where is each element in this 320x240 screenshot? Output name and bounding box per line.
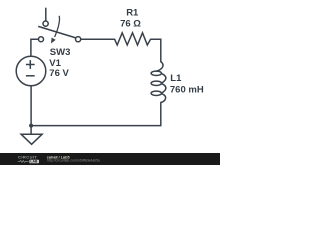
wire: junction to ground stub [30,126,32,135]
svg-text:76 V: 76 V [49,68,69,79]
svg-text:http://circuitlab.com/c69f8da4: http://circuitlab.com/c69f8da4ab5u [47,159,100,163]
wire: source top pin up and right to switch left throw [31,39,38,56]
resistor R1 zigzag [115,33,151,45]
ground [21,134,42,144]
node junction dot [29,124,33,128]
SW3 left throw terminal [39,37,44,42]
svg-text:R1: R1 [126,7,139,18]
svg-text:LAB: LAB [30,160,38,164]
watermark logo resistor squiggle [18,160,29,162]
wire: source bottom pin down to junction [30,86,32,126]
svg-text:L1: L1 [170,73,182,84]
SW3 top throw terminal [43,21,48,26]
SW3 action arrow [51,16,60,44]
wire: inductor bottom pin down, bottom wire left to junction [31,102,161,125]
svg-text:760 mH: 760 mH [170,85,204,96]
svg-text:SW3: SW3 [50,47,71,58]
V1 plus sign [26,60,35,69]
wire: resistor right to top-right corner, down to inductor top [151,39,161,62]
svg-text:76 Ω: 76 Ω [120,18,141,29]
wire: stub above switch top throw [45,8,47,21]
voltage source V1 [16,56,46,86]
watermark bar [0,153,220,165]
inductor L1 coil [151,62,166,103]
SW3 common terminal [76,37,81,42]
wire: switch common to resistor [81,38,115,40]
watermark logo LAB chip [29,160,39,164]
V1 minus sign [26,75,35,77]
svg-text:V1: V1 [49,58,61,69]
switch SW3 [38,21,80,42]
SW3 lever [38,26,76,38]
